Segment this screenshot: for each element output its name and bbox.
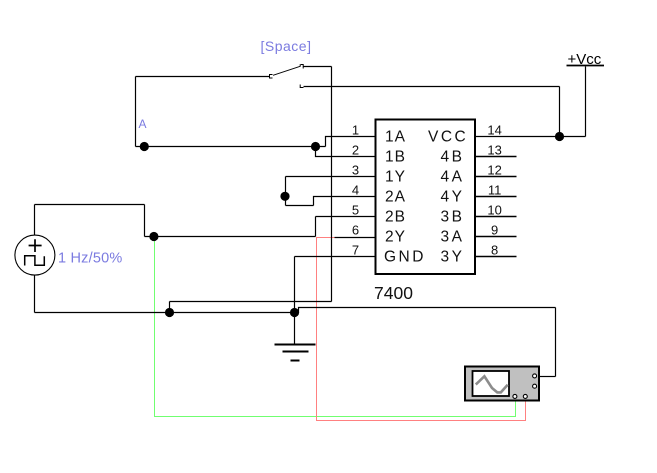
svg-text:+Vcc: +Vcc [568, 51, 602, 68]
svg-text:11: 11 [488, 183, 502, 198]
wire clock top horizontal [35, 204, 145, 206]
svg-text:12: 12 [487, 163, 501, 178]
oscilloscope sine wave [476, 376, 508, 392]
svg-text:4: 4 [352, 183, 359, 198]
svg-text:[Space]: [Space] [261, 38, 312, 54]
svg-text:3B: 3B [441, 209, 465, 226]
wire node A vertical left [135, 77, 137, 147]
junction dot rail / ground [290, 308, 299, 317]
wire jog up into pin 1 [326, 137, 376, 147]
oscilloscope terminal bottom A [513, 394, 517, 398]
svg-text:1B: 1B [385, 149, 406, 166]
svg-text:9: 9 [491, 223, 498, 238]
IC U1 right pin stubs 13..8 [476, 157, 517, 257]
wire vertical pin3 down to staircase [285, 177, 287, 206]
oscilloscope screen [473, 371, 510, 396]
wire rail step to right rail [295, 308, 556, 313]
svg-text:4B: 4B [441, 149, 465, 166]
IC U1 right pin labels [428, 129, 468, 266]
switch top contact wire [304, 66, 332, 68]
red wire to scope channel B [317, 238, 526, 421]
wire node A top horizontal to switch pivot [136, 76, 270, 78]
wire +Vcc vertical [585, 67, 587, 137]
switch bottom contact wire to Vcc corner [304, 86, 560, 88]
svg-text:2: 2 [352, 143, 359, 158]
svg-text:3: 3 [352, 163, 359, 178]
ground symbol [275, 345, 316, 361]
wire clock top vertical [34, 205, 36, 236]
oscilloscope XSC1 body [465, 367, 539, 401]
junction dot clock / green tap [149, 232, 158, 241]
oscilloscope terminal bottom B [523, 394, 527, 398]
svg-text:6: 6 [352, 223, 359, 238]
svg-text:3Y: 3Y [441, 249, 465, 266]
svg-text:2B: 2B [385, 209, 406, 226]
oscilloscope terminal right bottom [533, 384, 537, 388]
svg-text:A: A [139, 117, 147, 131]
wire node A horizontal to pin1/pin2 junction [136, 146, 326, 148]
switch S1 pivot hook [270, 64, 304, 87]
IC U1 left pin labels [384, 129, 426, 266]
svg-text:3A: 3A [441, 229, 465, 246]
junction dot staircase [280, 192, 289, 201]
wire ground rail left [35, 312, 295, 314]
junction dot pin1/pin2 [311, 142, 320, 151]
+Vcc underline [567, 65, 605, 67]
wire into scope right terminal [540, 376, 556, 378]
junction dot pin14 / Vcc [555, 132, 564, 141]
wire clock drop vertical [144, 205, 146, 237]
wire long vertical from switch down [331, 67, 333, 302]
pin numbers left 1-7 [352, 123, 359, 258]
wire ground vertical [294, 257, 296, 345]
svg-text:1 Hz/50%: 1 Hz/50% [58, 251, 122, 267]
wire rail down to scope [555, 308, 557, 377]
svg-text:13: 13 [487, 143, 501, 158]
wire into pin 5 [316, 216, 376, 218]
svg-text:1: 1 [352, 123, 359, 138]
svg-text:GND: GND [384, 249, 426, 266]
svg-text:5: 5 [352, 203, 359, 218]
svg-text:1Y: 1Y [385, 169, 406, 186]
wire pin 7 GND horizontal [295, 256, 376, 258]
pin 6 stub [335, 237, 376, 239]
junction dot rail left [165, 308, 174, 317]
svg-text:4Y: 4Y [441, 189, 465, 206]
svg-text:2A: 2A [385, 189, 406, 206]
clock source V1 square wave glyph [25, 256, 45, 266]
junction dot node A left [140, 142, 149, 151]
svg-text:7: 7 [352, 243, 359, 258]
svg-text:14: 14 [487, 123, 501, 138]
green wire to scope channel A [155, 237, 516, 417]
pin numbers right 14-8 [487, 123, 501, 258]
wire branch down into pin 2 [316, 147, 376, 157]
wire switch return drop to rail [169, 302, 171, 313]
wire clock to pin5 horizontal [145, 236, 316, 238]
wire clock bottom vertical [34, 275, 36, 313]
switch S1 top contact hook [301, 65, 304, 69]
svg-text:10: 10 [487, 203, 501, 218]
switch S1 blade [273, 64, 300, 75]
svg-text:1A: 1A [385, 129, 406, 146]
clock source V1 plus sign [29, 239, 42, 252]
svg-text:4A: 4A [441, 169, 465, 186]
wire Vcc corner down to pin14 [559, 87, 561, 137]
oscilloscope terminal right top [533, 374, 537, 378]
IC U1 7400 body [376, 120, 476, 275]
wire pin5 jog up [315, 217, 317, 237]
svg-text:VCC: VCC [428, 129, 468, 146]
clock source V1 circle [15, 235, 55, 275]
wire staircase bottom horizontal [286, 205, 314, 207]
switch S1 bottom contact hook [300, 85, 303, 88]
svg-text:2Y: 2Y [385, 229, 406, 246]
svg-text:8: 8 [491, 243, 498, 258]
svg-text:7400: 7400 [374, 283, 413, 303]
wire pin 3 output [286, 176, 376, 178]
wire staircase up into pin 4 [314, 197, 376, 206]
wire pin 14 to +Vcc [476, 136, 586, 138]
wire switch return horizontal [170, 301, 332, 303]
